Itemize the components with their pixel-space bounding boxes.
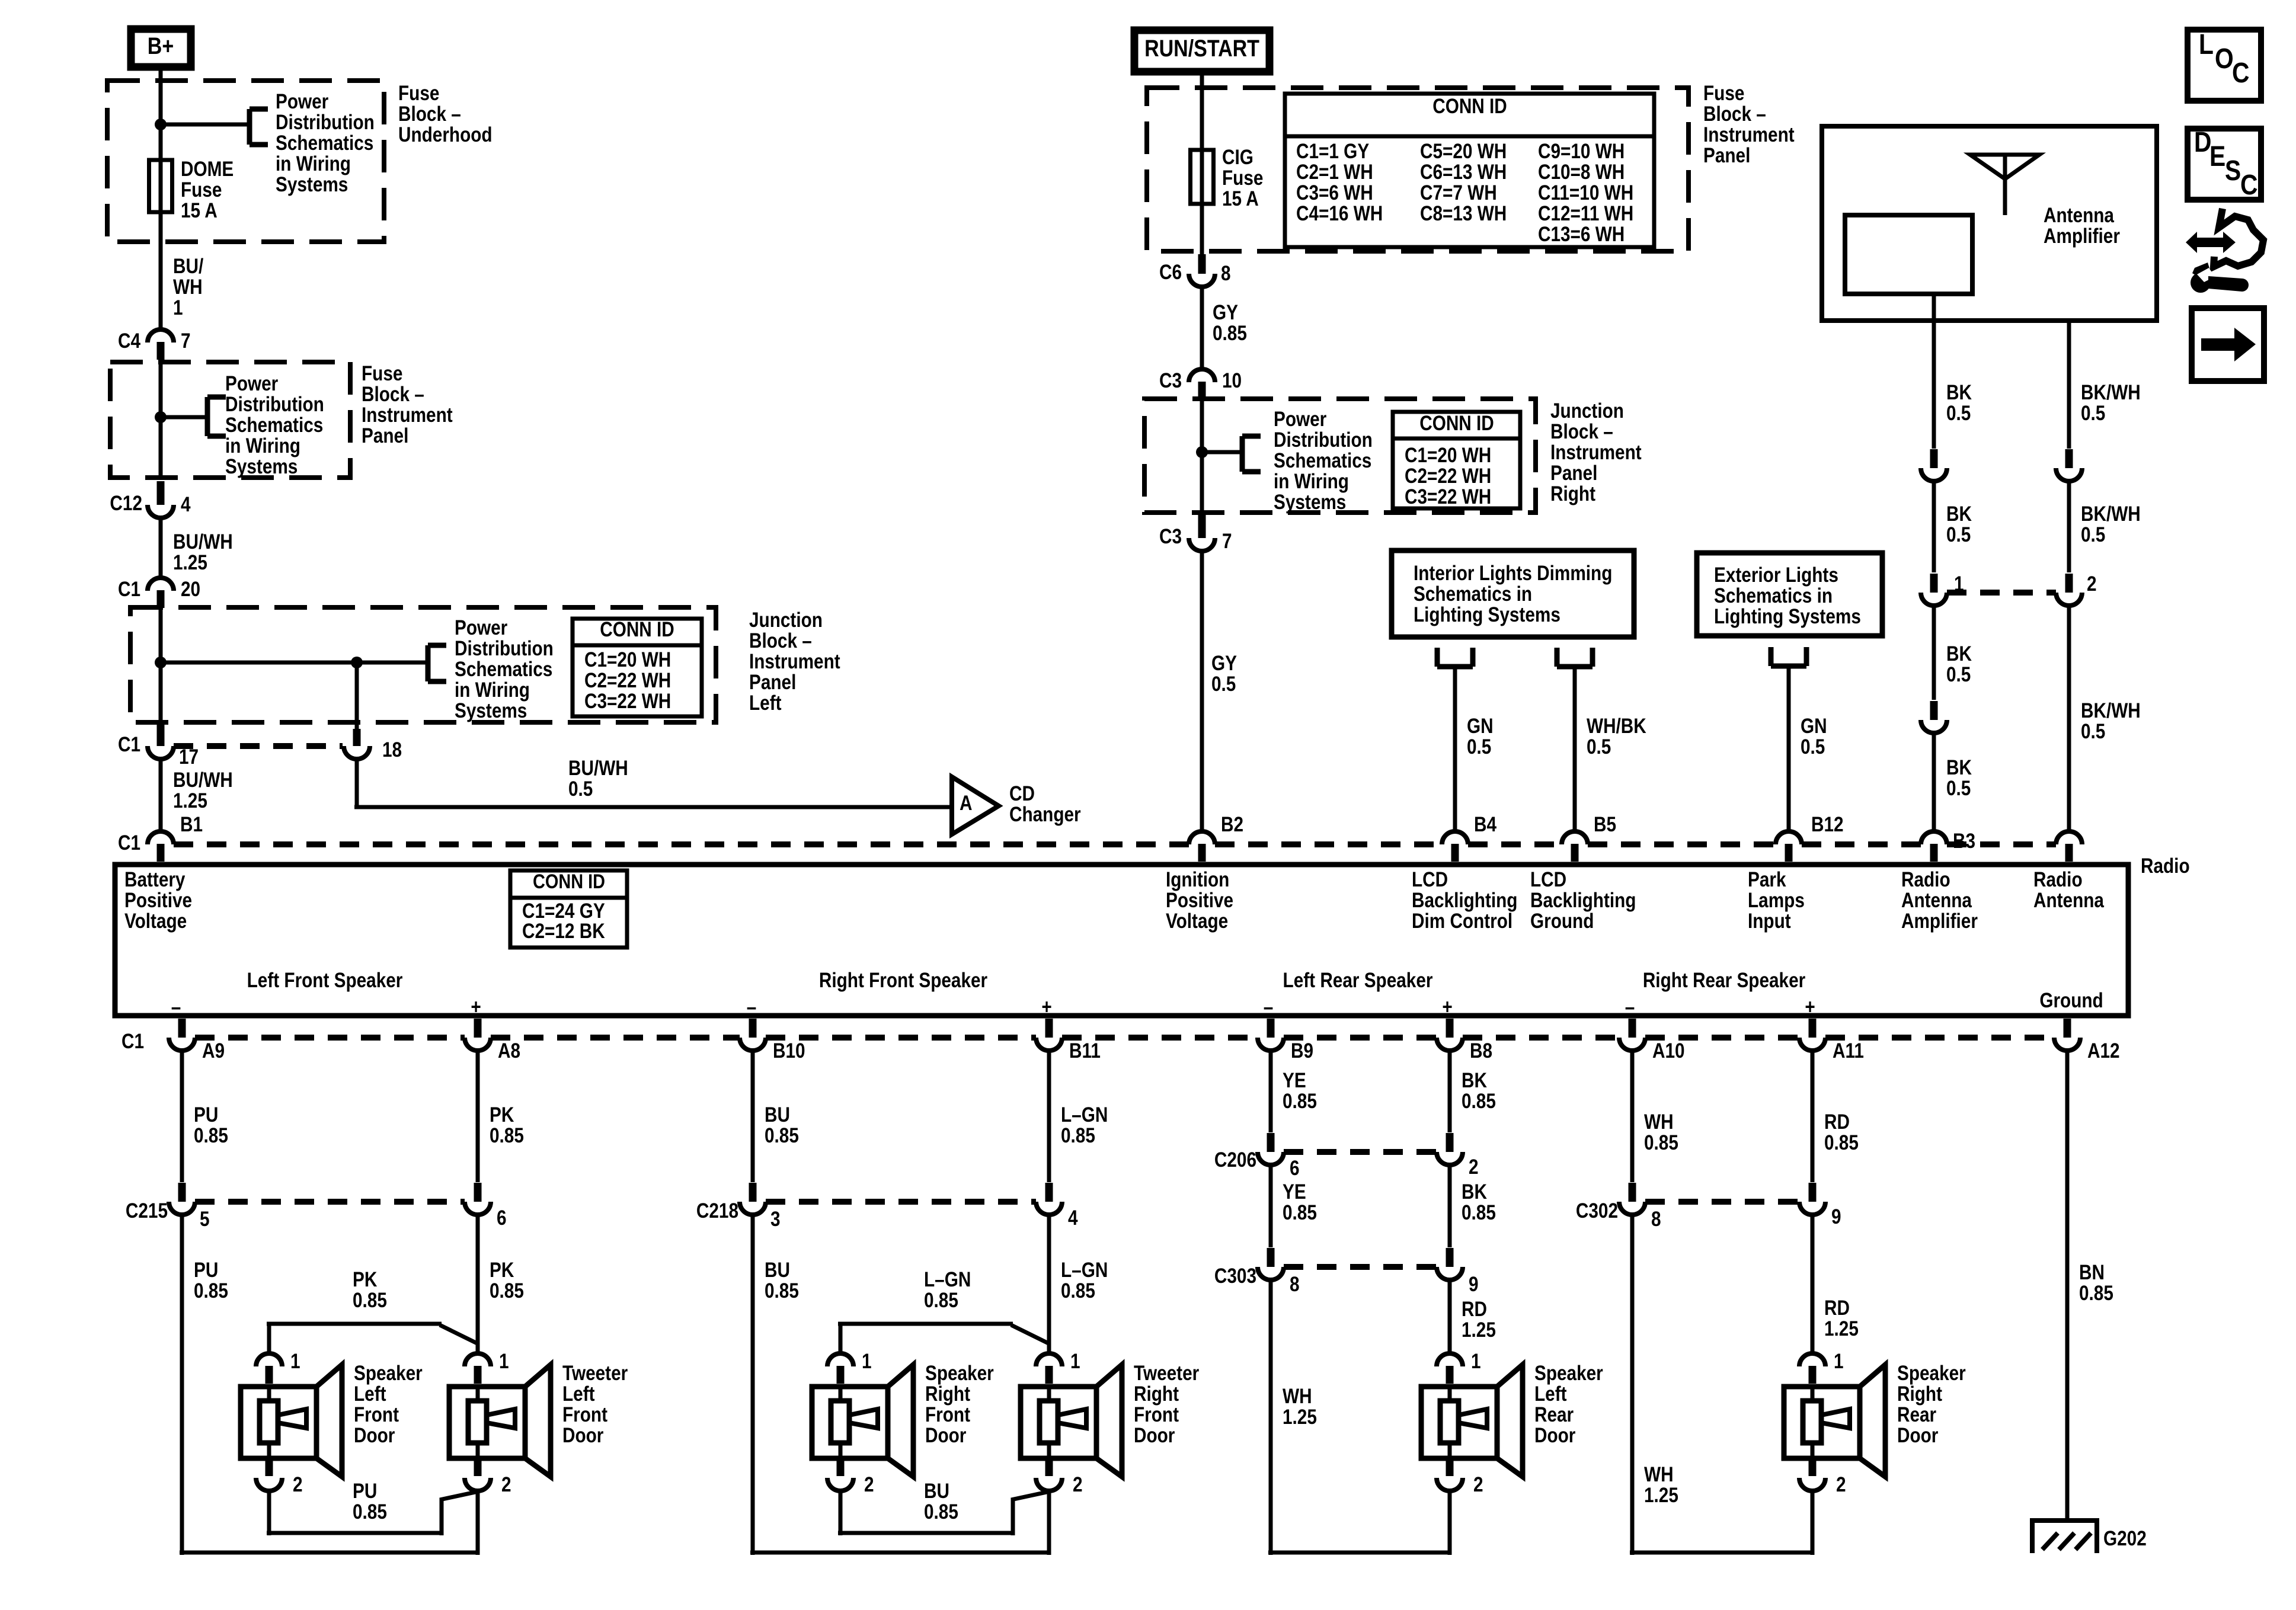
svg-text:0.85: 0.85 xyxy=(353,1289,387,1312)
svg-text:GY: GY xyxy=(1213,301,1238,324)
wire label BU/WH 1.25 xyxy=(173,530,233,574)
wire label RD 1.25 (left rear) xyxy=(1462,1298,1496,1342)
wire BK segment xyxy=(1932,481,1936,572)
wire label BN 0.85 xyxy=(2079,1261,2113,1305)
connector C3 pin 10 xyxy=(1159,369,1242,399)
wire YE below C206 xyxy=(1269,1165,1273,1247)
wire L-GN below 4 xyxy=(1047,1215,1051,1353)
svg-text:Backlighting: Backlighting xyxy=(1530,889,1636,912)
svg-text:18: 18 xyxy=(382,738,402,761)
svg-text:Distribution: Distribution xyxy=(276,111,375,134)
svg-text:Schematics in: Schematics in xyxy=(1714,584,1833,607)
wire PK from A8 xyxy=(476,1052,480,1182)
label junction block instrument panel left xyxy=(749,609,840,715)
radio port label radio antenna amplifier xyxy=(1901,868,1978,933)
wire label PK 0.85 (upper) xyxy=(490,1103,524,1147)
svg-text:0.5: 0.5 xyxy=(2081,720,2105,743)
svg-text:Block –: Block – xyxy=(1550,420,1613,443)
CD changer triangle A xyxy=(952,777,999,834)
connector B2 into radio xyxy=(1189,813,1243,862)
svg-text:in Wiring: in Wiring xyxy=(276,152,351,175)
wire label GY 0.85 xyxy=(1213,301,1247,345)
connector C302 pin 8 xyxy=(1576,1183,1661,1231)
reference bracket to B5 wire xyxy=(1557,648,1593,667)
wire YE from B9 xyxy=(1269,1052,1273,1132)
radio component box xyxy=(115,865,2128,1016)
speaker speaker left rear door xyxy=(1421,1362,1603,1477)
svg-text:Power: Power xyxy=(455,616,508,639)
svg-text:1.25: 1.25 xyxy=(173,551,207,574)
wire label BU 0.85 (lower) xyxy=(765,1259,799,1302)
radio port label LCD backlighting ground xyxy=(1530,868,1636,933)
wire BU return loop right front xyxy=(838,1491,1050,1535)
svg-text:YE: YE xyxy=(1283,1180,1306,1204)
svg-text:BU/WH: BU/WH xyxy=(173,530,233,553)
reference bracket to B12 wire xyxy=(1771,647,1806,666)
wire label BK/WH 0.5 (2nd) xyxy=(2081,502,2141,546)
svg-text:C6: C6 xyxy=(1159,261,1182,284)
svg-text:Schematics: Schematics xyxy=(455,658,552,681)
svg-text:0.5: 0.5 xyxy=(568,777,593,801)
wire label L-GN 0.85 (upper) xyxy=(1061,1103,1108,1147)
svg-text:8: 8 xyxy=(1221,262,1231,285)
label power distribution schematics (underhood) xyxy=(276,90,375,196)
label Radio xyxy=(2141,854,2190,878)
svg-text:0.5: 0.5 xyxy=(2081,523,2105,546)
off-page reference bracket (junction block right) xyxy=(1242,436,1261,472)
antenna amplifier outer box xyxy=(1822,126,2157,321)
svg-text:B10: B10 xyxy=(773,1039,805,1062)
svg-text:C303: C303 xyxy=(1214,1265,1256,1288)
wire label BK 0.85 (lower) xyxy=(1462,1180,1496,1224)
svg-text:Left: Left xyxy=(562,1382,595,1406)
node junction for CD changer feed xyxy=(351,657,363,668)
svg-text:Panel: Panel xyxy=(1550,462,1597,485)
wire PK branch to woofer pin 1 xyxy=(267,1324,478,1353)
wire GN to radio B12 xyxy=(1787,666,1791,831)
svg-text:1: 1 xyxy=(1070,1350,1080,1373)
svg-text:BK/WH: BK/WH xyxy=(2081,381,2141,404)
connector A8 out of radio xyxy=(465,1019,520,1062)
svg-text:1: 1 xyxy=(862,1350,872,1373)
wire label BU/WH 0.5 xyxy=(568,757,628,801)
connector pin 6 (C215) xyxy=(465,1183,507,1230)
connector pin 4 (C218) xyxy=(1036,1183,1078,1230)
dashed connector line C218 xyxy=(766,1199,1036,1205)
svg-text:CONN ID: CONN ID xyxy=(533,870,605,893)
svg-text:2: 2 xyxy=(2087,572,2097,596)
svg-text:PK: PK xyxy=(490,1103,514,1126)
wire WH from A10 xyxy=(1630,1052,1635,1182)
connector C206 pin 6 xyxy=(1214,1133,1300,1180)
svg-text:C1=20 WH: C1=20 WH xyxy=(584,648,671,671)
svg-text:C12: C12 xyxy=(110,492,142,515)
connector pin 2 of speaker right rear door xyxy=(1799,1458,1846,1496)
svg-text:Left Front Speaker: Left Front Speaker xyxy=(247,969,403,992)
wire label GY 0.5 xyxy=(1211,652,1237,696)
svg-text:C6=13 WH: C6=13 WH xyxy=(1420,161,1507,184)
svg-text:L–GN: L–GN xyxy=(924,1268,971,1291)
wire label BK/WH 0.5 (3rd) xyxy=(2081,699,2141,743)
wire B+ feed BU/WH (left column) xyxy=(159,71,163,328)
svg-text:C4: C4 xyxy=(118,329,140,353)
connector pin 1 of tweeter right front door xyxy=(1036,1350,1080,1384)
wire BK/WH from antenna amplifier xyxy=(2067,321,2071,449)
svg-text:Instrument: Instrument xyxy=(362,404,453,427)
svg-text:C218: C218 xyxy=(696,1199,738,1222)
svg-text:Distribution: Distribution xyxy=(1274,428,1373,452)
wire label BK 0.5 (2nd) xyxy=(1946,502,1972,546)
wire label WH/BK 0.5 xyxy=(1587,715,1646,758)
svg-text:Door: Door xyxy=(1897,1424,1939,1447)
svg-text:Power: Power xyxy=(276,90,329,113)
speaker speaker left front door xyxy=(241,1362,423,1477)
wire label GN 0.5 (B12) xyxy=(1801,715,1827,758)
label CD Changer xyxy=(1009,782,1081,826)
svg-text:WH: WH xyxy=(1644,1463,1674,1486)
node junction in junction block left xyxy=(155,657,167,668)
svg-text:2: 2 xyxy=(1836,1473,1846,1496)
reference bracket to B4 wire xyxy=(1437,648,1473,667)
connector pin 2 of speaker left rear door xyxy=(1437,1458,1483,1496)
inline connector on BK wire (lower) xyxy=(1921,701,1947,733)
wire GN to radio B4 xyxy=(1453,667,1457,831)
svg-text:CIG: CIG xyxy=(1222,146,1253,169)
speaker speaker right front door xyxy=(812,1362,994,1477)
wire PU return loop left front xyxy=(267,1491,478,1535)
wire 18 to CD changer xyxy=(354,760,952,807)
svg-text:Junction: Junction xyxy=(1550,399,1624,422)
svg-text:B1: B1 xyxy=(180,813,203,836)
svg-text:A12: A12 xyxy=(2087,1039,2120,1062)
svg-text:C3=22 WH: C3=22 WH xyxy=(584,690,671,713)
node junction on B+ feed xyxy=(155,119,167,130)
svg-text:A9: A9 xyxy=(202,1039,225,1062)
svg-text:3: 3 xyxy=(770,1208,781,1231)
svg-text:RD: RD xyxy=(1462,1298,1487,1321)
svg-text:4: 4 xyxy=(181,493,191,516)
wire PU below C215 xyxy=(180,1215,478,1555)
svg-text:Rear: Rear xyxy=(1897,1403,1936,1426)
wire label RD 1.25 (right rear) xyxy=(1824,1297,1859,1340)
antenna symbol xyxy=(1970,155,2039,215)
wire BK/WH segment xyxy=(2067,481,2071,572)
svg-text:1: 1 xyxy=(1834,1350,1844,1373)
svg-text:0.5: 0.5 xyxy=(1946,402,1971,425)
svg-text:C1: C1 xyxy=(118,733,140,756)
svg-text:C9=10 WH: C9=10 WH xyxy=(1538,140,1625,163)
svg-text:15 A: 15 A xyxy=(181,199,218,222)
svg-text:YE: YE xyxy=(1283,1069,1306,1092)
wire C3 to radio B2 xyxy=(1200,551,1204,831)
wire label YE 0.85 (lower) xyxy=(1283,1180,1317,1224)
svg-text:Radio: Radio xyxy=(2033,868,2083,891)
svg-text:0.85: 0.85 xyxy=(1283,1201,1317,1224)
svg-text:Panel: Panel xyxy=(362,424,408,447)
svg-text:C215: C215 xyxy=(126,1199,168,1222)
svg-text:1.25: 1.25 xyxy=(1644,1484,1678,1507)
svg-text:1.25: 1.25 xyxy=(1462,1318,1496,1342)
svg-text:A: A xyxy=(960,792,972,815)
svg-text:B11: B11 xyxy=(1069,1039,1101,1062)
svg-text:L–GN: L–GN xyxy=(1061,1259,1108,1282)
svg-text:Left: Left xyxy=(749,692,782,715)
wire branch to power distribution reference (IP) xyxy=(161,415,207,420)
connector C3 pin 7 xyxy=(1159,514,1232,553)
svg-text:0.85: 0.85 xyxy=(490,1124,524,1147)
svg-text:1.25: 1.25 xyxy=(1283,1406,1317,1429)
svg-text:0.85: 0.85 xyxy=(1061,1279,1095,1302)
svg-text:7: 7 xyxy=(181,329,191,353)
svg-text:in Wiring: in Wiring xyxy=(1274,470,1349,493)
svg-text:0.85: 0.85 xyxy=(1283,1090,1317,1113)
connector pin 1 of tweeter left front door xyxy=(465,1350,509,1384)
svg-text:RD: RD xyxy=(1824,1110,1850,1134)
wire WH below C302 and return loop xyxy=(1630,1215,1812,1555)
svg-text:2: 2 xyxy=(501,1473,511,1496)
svg-text:Instrument: Instrument xyxy=(749,650,840,673)
svg-text:0.85: 0.85 xyxy=(924,1500,958,1523)
dashed connector line C215 xyxy=(195,1199,465,1205)
svg-text:C2=22 WH: C2=22 WH xyxy=(1405,465,1491,488)
svg-text:Left: Left xyxy=(1534,1382,1567,1406)
wire RUN/START feed xyxy=(1200,75,1204,254)
svg-text:in Wiring: in Wiring xyxy=(225,434,300,457)
dashed connector line radio bottom row xyxy=(195,1035,2054,1041)
svg-text:Junction: Junction xyxy=(749,609,823,632)
node junction inside fuse block IP xyxy=(155,411,167,423)
radio speaker section labels xyxy=(247,969,1806,992)
svg-text:Positive: Positive xyxy=(124,889,192,912)
svg-text:+: + xyxy=(1041,996,1051,1019)
wire BK from antenna amplifier xyxy=(1932,294,1936,449)
fuse block instrument panel (upper right) dashed box xyxy=(1147,88,1689,251)
svg-text:1.25: 1.25 xyxy=(173,789,207,812)
connector B5 into radio xyxy=(1562,813,1616,862)
svg-text:LCD: LCD xyxy=(1412,868,1448,891)
svg-text:C12=11 WH: C12=11 WH xyxy=(1538,202,1633,225)
ground symbol G202 xyxy=(2030,1518,2147,1553)
CONN ID table junction block right xyxy=(1393,412,1520,508)
label power distribution schematics (IP) xyxy=(225,372,324,478)
connector A11 out of radio xyxy=(1799,1019,1864,1062)
inline connector on BK/WH wire xyxy=(2056,449,2082,481)
wire label RD 0.85 xyxy=(1824,1110,1859,1154)
svg-text:Distribution: Distribution xyxy=(455,637,554,660)
svg-text:O: O xyxy=(2215,43,2234,75)
svg-text:Fuse: Fuse xyxy=(1222,167,1263,190)
svg-text:1: 1 xyxy=(499,1350,509,1373)
svg-text:GY: GY xyxy=(1211,652,1237,675)
wire label PU 0.85 (upper) xyxy=(194,1103,228,1147)
connector pin 9 (C303) xyxy=(1437,1248,1479,1296)
CONN ID table radio xyxy=(510,870,627,948)
svg-text:Panel: Panel xyxy=(749,671,796,694)
svg-text:0.5: 0.5 xyxy=(1211,673,1236,696)
connector pin 1 of speaker right rear door xyxy=(1799,1350,1844,1384)
inline connector on BK wire (upper) xyxy=(1921,449,1947,481)
connector pin 2 (BK/WH wire) xyxy=(2056,572,2097,606)
svg-text:0.85: 0.85 xyxy=(1462,1090,1496,1113)
svg-text:Speaker: Speaker xyxy=(925,1362,994,1385)
svg-text:Underhood: Underhood xyxy=(398,123,493,146)
wire BU below C218 xyxy=(750,1215,1049,1555)
svg-text:S: S xyxy=(2225,155,2241,187)
svg-text:Systems: Systems xyxy=(455,699,527,722)
svg-text:C7=7 WH: C7=7 WH xyxy=(1420,181,1497,204)
svg-text:Lighting Systems: Lighting Systems xyxy=(1414,603,1560,626)
svg-text:2: 2 xyxy=(293,1473,303,1496)
svg-text:–: – xyxy=(747,996,757,1019)
svg-text:C206: C206 xyxy=(1214,1148,1256,1172)
svg-text:2: 2 xyxy=(1073,1473,1083,1496)
polarity signs speaker ports xyxy=(171,996,1815,1019)
svg-text:Systems: Systems xyxy=(1274,491,1346,514)
svg-text:B4: B4 xyxy=(1474,813,1496,836)
svg-text:D: D xyxy=(2194,127,2211,158)
svg-text:15 A: 15 A xyxy=(1222,187,1259,210)
CONN ID table junction block left xyxy=(573,618,702,716)
svg-text:Block –: Block – xyxy=(362,383,424,406)
svg-text:0.85: 0.85 xyxy=(1462,1201,1496,1224)
connector C6 pin 8 xyxy=(1159,254,1231,287)
svg-text:C1: C1 xyxy=(118,831,140,854)
wire label WH 1.25 (left rear) xyxy=(1283,1385,1317,1429)
speaker tweeter left front door xyxy=(449,1362,628,1477)
power symbol B+ (battery positive) xyxy=(131,29,191,67)
dashed connector line 1-2 xyxy=(1947,590,2056,596)
svg-text:Battery: Battery xyxy=(124,868,185,891)
wire L-GN branch to woofer pin 1 xyxy=(838,1324,1050,1353)
svg-text:Systems: Systems xyxy=(225,455,298,478)
connector antenna into radio xyxy=(2056,831,2082,862)
dashed connector line C303 xyxy=(1284,1264,1437,1270)
svg-text:Amplifier: Amplifier xyxy=(1901,910,1978,933)
svg-text:0.85: 0.85 xyxy=(194,1279,228,1302)
svg-text:Voltage: Voltage xyxy=(1166,910,1228,933)
connector C1/A9 out of radio xyxy=(121,1019,225,1062)
svg-text:C2=1 WH: C2=1 WH xyxy=(1296,161,1373,184)
svg-text:PU: PU xyxy=(353,1480,377,1503)
wire WH below C303 and return loop xyxy=(1268,1280,1450,1555)
junction block instrument panel left dashed box xyxy=(130,607,716,722)
connector A10 out of radio xyxy=(1619,1019,1685,1062)
svg-text:Exterior Lights: Exterior Lights xyxy=(1714,564,1838,587)
wire branch across junction block left xyxy=(161,661,428,665)
svg-text:WH/BK: WH/BK xyxy=(1587,715,1646,738)
svg-text:LCD: LCD xyxy=(1530,868,1566,891)
svg-text:8: 8 xyxy=(1651,1208,1661,1231)
svg-text:C1: C1 xyxy=(121,1030,144,1053)
label fuse block instrument panel (right) xyxy=(1703,82,1795,167)
wire label PK 0.85 (branch) xyxy=(353,1268,387,1312)
svg-text:Ground: Ground xyxy=(1530,910,1594,933)
svg-text:PU: PU xyxy=(194,1103,218,1126)
connector pin 2 of speaker right front door xyxy=(827,1458,874,1496)
svg-text:BU: BU xyxy=(924,1480,949,1503)
svg-text:B3: B3 xyxy=(1953,830,1975,853)
svg-text:0.85: 0.85 xyxy=(1824,1131,1859,1154)
svg-text:Panel: Panel xyxy=(1703,144,1750,167)
svg-text:Left Rear Speaker: Left Rear Speaker xyxy=(1283,969,1433,992)
svg-text:0.85: 0.85 xyxy=(765,1124,799,1147)
svg-text:2: 2 xyxy=(864,1473,874,1496)
svg-text:C1=1 GY: C1=1 GY xyxy=(1296,140,1369,163)
svg-text:C1=20 WH: C1=20 WH xyxy=(1405,444,1491,467)
wire C6 to C3 xyxy=(1200,287,1204,368)
connector pin 1 (BK wire) xyxy=(1921,572,1964,606)
wire drop to connector 18 xyxy=(355,662,359,729)
connector C12 pin 4 xyxy=(110,481,190,518)
fuse block underhood dashed box xyxy=(107,81,384,242)
svg-text:10: 10 xyxy=(1222,369,1242,392)
svg-text:Systems: Systems xyxy=(276,173,348,196)
svg-text:0.85: 0.85 xyxy=(353,1500,387,1523)
svg-text:C2=22 WH: C2=22 WH xyxy=(584,669,671,692)
svg-text:BN: BN xyxy=(2079,1261,2105,1284)
svg-text:Fuse: Fuse xyxy=(398,82,439,105)
wire BN from A12 ground port xyxy=(2065,1052,2070,1521)
wire label BK 0.5 (4th) xyxy=(1946,756,1972,800)
svg-text:Antenna: Antenna xyxy=(1901,889,1972,912)
wire RD to speaker pin 1 xyxy=(1448,1280,1452,1353)
wire label PU 0.85 (return) xyxy=(353,1480,387,1523)
svg-text:5: 5 xyxy=(200,1208,210,1231)
dashed connector line radio top row xyxy=(174,841,2056,847)
svg-text:Door: Door xyxy=(562,1424,604,1447)
dashed connector line C1 17-18 xyxy=(174,743,343,749)
svg-text:20: 20 xyxy=(181,578,200,601)
off-page reference bracket (junction block left) xyxy=(428,645,446,681)
speaker speaker right rear door xyxy=(1784,1362,1966,1477)
wire RD to speaker pin 1 (right rear) xyxy=(1811,1215,1815,1353)
svg-text:Power: Power xyxy=(225,372,279,395)
exterior lights reference box xyxy=(1697,553,1882,636)
connector pin 2 of tweeter left front door xyxy=(465,1458,511,1496)
antenna amplifier inner box xyxy=(1845,204,2120,294)
wire label BK/WH 0.5 (1st) xyxy=(2081,381,2141,425)
fuse DOME 15A xyxy=(149,158,234,222)
svg-text:C: C xyxy=(2232,57,2249,89)
svg-text:C8=13 WH: C8=13 WH xyxy=(1420,202,1507,225)
svg-text:BU: BU xyxy=(765,1103,790,1126)
svg-text:0.5: 0.5 xyxy=(1946,777,1971,800)
svg-text:Right Front Speaker: Right Front Speaker xyxy=(819,969,988,992)
svg-text:C10=8 WH: C10=8 WH xyxy=(1538,161,1625,184)
wire label BK 0.85 (upper) xyxy=(1462,1069,1496,1113)
svg-text:–: – xyxy=(171,996,181,1019)
svg-text:9: 9 xyxy=(1469,1273,1479,1296)
svg-text:Backlighting: Backlighting xyxy=(1412,889,1517,912)
wire label L-GN 0.85 (branch) xyxy=(924,1268,971,1312)
connector A12 out of radio xyxy=(2054,1019,2120,1062)
svg-text:B5: B5 xyxy=(1594,813,1616,836)
svg-text:Lighting Systems: Lighting Systems xyxy=(1714,605,1861,628)
svg-text:C1: C1 xyxy=(118,578,140,601)
connector C303 pin 8 xyxy=(1214,1248,1300,1296)
svg-text:–: – xyxy=(1264,996,1274,1019)
svg-text:+: + xyxy=(1805,996,1815,1019)
wire 17 to radio B1 xyxy=(159,760,163,831)
svg-text:Ground: Ground xyxy=(2039,989,2103,1012)
wire label WH 1.25 (right rear) xyxy=(1644,1463,1678,1507)
svg-text:DOME: DOME xyxy=(181,158,234,181)
connector C1 pin 17 xyxy=(118,725,199,769)
svg-text:PK: PK xyxy=(490,1259,514,1282)
svg-text:Door: Door xyxy=(1134,1424,1175,1447)
svg-text:BK: BK xyxy=(1946,502,1972,526)
svg-text:CONN ID: CONN ID xyxy=(1432,95,1507,118)
